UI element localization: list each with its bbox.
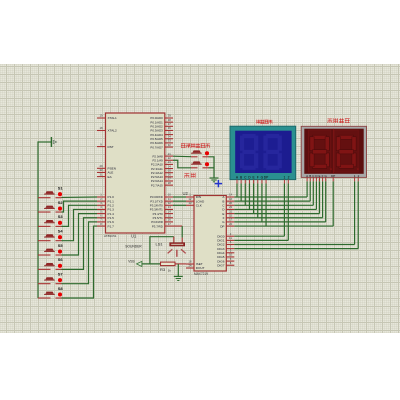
svg-text:24: 24: [188, 264, 192, 268]
svg-text:19: 19: [99, 114, 103, 118]
svg-text:DP: DP: [220, 224, 224, 228]
svg-text:S5: S5: [58, 243, 64, 248]
svg-text:32: 32: [168, 143, 172, 147]
svg-text:LS1: LS1: [156, 241, 164, 246]
svg-text:P1.7: P1.7: [108, 224, 115, 228]
svg-text:RST: RST: [108, 145, 114, 149]
svg-text:S8: S8: [58, 286, 64, 291]
svg-text:S2: S2: [58, 200, 64, 205]
svg-text:SOUNDER: SOUNDER: [125, 245, 142, 249]
svg-text:P0.7/AD7: P0.7/AD7: [150, 145, 163, 149]
svg-text:F: F: [257, 175, 259, 179]
svg-text:S4: S4: [58, 228, 64, 233]
svg-text:AT89C51: AT89C51: [104, 234, 117, 238]
svg-text:28: 28: [168, 181, 172, 185]
svg-text:1: 1: [283, 175, 285, 179]
svg-text:18: 18: [99, 126, 103, 130]
svg-text:P2.7/A15: P2.7/A15: [151, 183, 163, 187]
svg-text:S6: S6: [58, 257, 64, 262]
svg-text:DP: DP: [264, 175, 269, 179]
svg-text:U2: U2: [183, 191, 189, 196]
svg-text:31: 31: [99, 172, 103, 176]
svg-text:MAX7219: MAX7219: [194, 272, 208, 276]
svg-text:CLK: CLK: [196, 204, 203, 208]
svg-text:VSS: VSS: [128, 260, 134, 264]
svg-text:22: 22: [229, 222, 233, 226]
svg-text:13: 13: [188, 201, 192, 205]
svg-text:2: 2: [288, 175, 290, 179]
svg-text:DIG7: DIG7: [217, 263, 225, 267]
svg-text:XTAL2: XTAL2: [108, 129, 118, 133]
svg-text:U1: U1: [131, 234, 137, 239]
svg-text:XTAL1: XTAL1: [108, 116, 118, 120]
svg-text:S7: S7: [58, 271, 64, 276]
svg-text:17: 17: [168, 222, 172, 226]
svg-text:9: 9: [100, 142, 102, 146]
svg-text:1k: 1k: [168, 268, 172, 272]
svg-text:S3: S3: [58, 214, 64, 219]
svg-text:S1: S1: [58, 186, 64, 191]
svg-text:P3.7/RD: P3.7/RD: [152, 224, 163, 228]
svg-text:DOUT: DOUT: [196, 266, 205, 270]
svg-text:R3: R3: [160, 267, 166, 272]
